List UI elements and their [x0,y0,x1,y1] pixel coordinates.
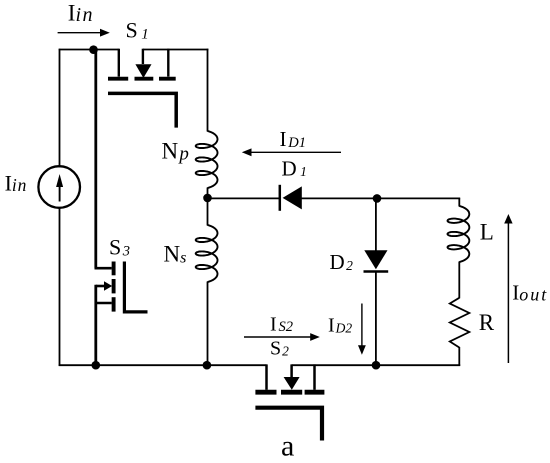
diode D1 [280,185,302,211]
svg-text:IS2: IS2 [270,313,293,335]
inductor Ns (transformer secondary) [196,225,218,282]
current source Iin [38,166,80,208]
svg-text:Iin: Iin [68,0,94,26]
node dot S3-source rail junction [92,361,101,370]
transistor S3 (MOSFET) [95,262,148,312]
wire thick drain line to S3 [94,49,97,269]
svg-text:Np: Np [162,139,189,165]
node dot top-left junction [89,45,98,54]
inductor Np (transformer primary) [196,131,218,188]
arrow Iin input current direction [58,29,110,37]
wire D1 to L branch [301,197,460,199]
diode D2 [364,250,389,271]
wire L to R segment [458,262,460,299]
transistor S2 (MOSFET) [255,364,324,440]
wire right vertical to Np [207,49,209,132]
wire D2 branch upper [375,198,377,251]
wire S3 source to bottom rail [94,285,97,366]
svg-text:D1: D1 [282,156,307,180]
wire bottom rail right segment [292,364,461,366]
arrow ID2 current direction [358,304,366,355]
svg-text:L: L [480,219,494,244]
transistor S1 (MOSFET) [108,49,176,128]
svg-text:a: a [281,430,294,463]
wire R to bottom rail [458,347,460,366]
svg-text:Iin: Iin [5,170,28,195]
resistor R [450,298,470,348]
svg-text:ID2: ID2 [328,315,352,337]
wire D1 anode-side horizontal [208,197,282,199]
svg-text:R: R [479,310,495,335]
arrow ID1 current direction [242,148,341,156]
wire Ns to bottom rail [207,282,209,367]
svg-text:ID1: ID1 [280,127,307,151]
node dot Ns rail junction [203,361,212,370]
wire top rail left segment [59,49,119,51]
wire bottom rail left segment [59,364,267,366]
node dot D1-D2 junction [373,194,382,203]
arrow Iout current direction [504,214,512,363]
svg-text:S3: S3 [109,235,130,260]
wire L branch upper [458,198,460,206]
node dot D2 rail junction [372,361,381,370]
svg-text:Ns: Ns [164,241,187,266]
arrow IS2 current direction [244,333,320,341]
svg-text:S1: S1 [126,18,149,43]
svg-text:S2: S2 [270,338,289,360]
wire D2 to bottom rail [375,272,377,367]
wire left branch vertical (source to bottom rail) [59,49,61,366]
wire top rail right segment [143,49,209,51]
wire Np to Ns segment [207,188,209,226]
inductor L [448,206,470,262]
svg-text:D2: D2 [330,250,354,274]
svg-text:Iout: Iout [512,281,548,305]
node dot Np-Ns-D1 junction [203,194,212,203]
